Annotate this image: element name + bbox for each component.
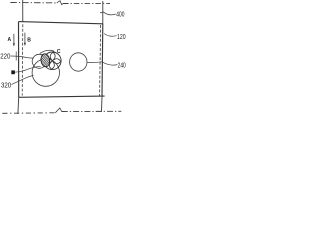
arrow C (curved) xyxy=(40,50,53,53)
break symbol bottom xyxy=(55,108,62,113)
phantom band bottom centerline (dash-dot, right of break) xyxy=(62,110,122,112)
box 120 right edge xyxy=(101,24,104,97)
big circle 320 xyxy=(32,59,59,86)
arrow A (down) xyxy=(13,34,15,45)
svg-text:220: 220 xyxy=(0,54,10,61)
hidden dashed line right xyxy=(100,25,101,96)
svg-text:A: A xyxy=(8,37,12,43)
phantom band top centerline (dash-dot, left of break) xyxy=(10,2,56,4)
right edge extension below box xyxy=(101,96,104,112)
tick on leader 400 xyxy=(100,11,103,14)
left edge extension below box xyxy=(17,97,20,114)
svg-text:400: 400 xyxy=(116,11,124,18)
svg-text:C: C xyxy=(57,49,61,55)
svg-text:B: B xyxy=(27,38,31,44)
arrow B (down) xyxy=(24,33,26,44)
leader 320 xyxy=(11,75,33,84)
phantom band top centerline (dash-dot, right of break) xyxy=(63,3,110,5)
hatched roller (section) xyxy=(40,53,50,67)
leader 240 xyxy=(87,62,117,65)
leader from square xyxy=(15,66,41,72)
svg-text:320: 320 xyxy=(1,83,11,90)
tick on leader 220 xyxy=(15,52,17,61)
leader 120 xyxy=(104,34,116,37)
phantom band bottom centerline (dash-dot, left of break) xyxy=(2,112,55,115)
phantom band left edge above box xyxy=(22,0,24,22)
circle 240 xyxy=(70,53,87,71)
box 120 top edge xyxy=(19,22,103,24)
left circle 220 xyxy=(32,54,46,68)
leader 400 xyxy=(103,12,116,15)
leader 220 xyxy=(11,56,34,58)
box 120 bottom edge xyxy=(19,96,105,97)
phantom band right edge above box xyxy=(102,1,104,24)
box 120 left edge xyxy=(18,22,20,98)
svg-text:120: 120 xyxy=(117,34,126,41)
black square marker xyxy=(11,70,15,74)
break symbol top xyxy=(57,1,63,5)
hidden dashed line left xyxy=(21,24,24,95)
fan circle C xyxy=(44,52,62,70)
svg-text:240: 240 xyxy=(118,63,126,70)
